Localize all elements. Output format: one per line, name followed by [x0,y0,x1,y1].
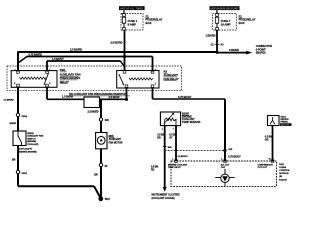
svg-text:1 BK/RD: 1 BK/RD [205,34,215,38]
connector X22 on left rail [16,113,28,118]
wire stub header to fuse left [123,10,125,14]
label F1 fuse/relay box [146,14,163,25]
wire bus line3 [47,60,121,62]
terminal squares on klima box [175,160,274,163]
dashed internal link [165,149,225,151]
sensor B10/8 resistor symbol [165,118,176,125]
svg-text:BN: BN [12,159,16,162]
label pressure switch [280,117,292,127]
arrow to instrument cluster [163,187,167,192]
wire resistor to relay K9 [100,98,127,100]
svg-text:16 AMP: 16 AMP [221,23,231,27]
svg-text:AUXILIARY FAN: AUXILIARY FAN [27,135,43,138]
sensor B10/8 arrow [164,113,175,124]
svg-text:6 BK/RD: 6 BK/RD [229,48,239,52]
wire label 0.5 BN/BK left [157,133,164,139]
relay K9 switch blade [119,74,124,85]
resistor R11 box [84,97,100,108]
svg-text:BOX: BOX [239,21,245,25]
svg-text:W10: W10 [105,198,111,201]
node junction dashed/klima [223,149,226,152]
svg-text:7: 7 [173,129,174,131]
fuse box F1 (right) dashed [213,14,237,31]
fuse box F1 (left) dashed [121,14,143,31]
wire relay K9/1 pin 8 drop [17,87,19,131]
svg-text:1.5 BK/VT: 1.5 BK/VT [52,57,64,61]
label sensor B10/8 [182,112,200,124]
svg-text:SWITCH: SWITCH [281,124,290,126]
klima internal lead to clutch [224,169,226,174]
svg-text:0.75 BK/GY: 0.75 BK/GY [178,95,192,99]
svg-text:0.5 BK/GY: 0.5 BK/GY [178,156,189,158]
wire line2 corner down to relay K9 [152,57,154,72]
clutch circle symbol [215,174,234,186]
label F1 fuse/relay box right [239,14,256,25]
wire fuse7 drop [216,30,218,52]
wire label 0.5 BN/GN [265,135,272,141]
label motor M6/1 [109,135,123,145]
svg-text:PRESS: PRESS [281,122,289,124]
svg-text:1: 1 [172,158,173,160]
wire line3 corner down [121,61,125,67]
connector X5 [99,163,108,168]
label a/c cut out [221,163,230,169]
label instrument cluster [152,194,180,200]
temp switch blade [18,131,22,146]
label temp switch S25/11 [19,133,44,154]
wire arrow to connector [217,48,252,55]
pressure switch symbol [270,117,275,124]
svg-text:X30/4: X30/4 [22,115,28,118]
ground node W10 [98,196,110,201]
wire resistor down to motor [100,99,102,132]
svg-text:TEMP INPUT: TEMP INPUT [168,167,181,169]
svg-text:HOT AT ALL TIMES: HOT AT ALL TIMES [120,6,143,10]
svg-text:8 AMP: 8 AMP [128,23,136,27]
fuse 7 value label [221,19,231,26]
svg-text:(ENGINE: (ENGINE [27,141,36,143]
connector tick C2/A3 [211,44,224,47]
svg-text:2.5 BK/W: 2.5 BK/W [109,95,120,99]
wire klima vertical [224,99,226,161]
wire ground diagonal [94,186,101,198]
svg-text:C2: C2 [211,44,215,47]
svg-text:OUT: OUT [221,167,226,169]
wire stub header to fuse right [216,10,218,14]
svg-text:8: 8 [14,83,15,85]
svg-text:COOLANT): COOLANT) [27,143,38,146]
svg-text:S25/11: S25/11 [27,133,34,135]
relay K9 pin numbers [121,69,156,85]
svg-text:X5: X5 [105,165,109,168]
sensor pin numbers [162,129,174,131]
node junction resistor/K9 [125,98,128,101]
svg-text:1: 1 [121,69,122,71]
svg-text:(BEHIND ENGINE): (BEHIND ENGINE) [19,151,37,153]
temp switch S25/11 box [13,131,26,146]
svg-text:A3: A3 [220,44,224,47]
svg-text:BN: BN [94,173,98,176]
label relay K9/1 [60,68,81,84]
svg-text:2.5 BK/RD: 2.5 BK/RD [110,41,122,45]
wire relay K9/1 pin rail up [46,61,48,72]
label N1/3 klima module [279,164,290,182]
svg-text:BN/RD: BN/RD [10,123,17,125]
svg-text:TEMP SENSOR: TEMP SENSOR [182,120,200,124]
relay K9/1 pin numbers [14,69,50,85]
svg-text:0.75 BK/GY: 0.75 BK/GY [228,156,241,159]
wire ground run bottom [18,185,94,187]
svg-text:(COOLANT GAUGE): (COOLANT GAUGE) [152,197,175,200]
relay K9/1 coil [20,77,47,79]
relay K9 terminals [123,71,154,88]
svg-text:SWITCH: SWITCH [27,138,36,140]
fuse F7 element [215,16,218,27]
svg-text:COMPRESSOR: COMPRESSOR [258,164,274,166]
svg-text:5: 5 [49,83,50,85]
fuse F1 element [122,16,125,27]
wire sensor right drop [175,126,177,161]
svg-text:10: 10 [269,158,271,160]
label connector destination [256,44,272,55]
wire label 0.5 BK/GY right [169,133,176,139]
svg-text:1: 1 [49,69,50,71]
svg-text:S65: S65 [168,147,173,149]
wire motor drop [100,149,102,199]
svg-text:X26: X26 [105,119,110,122]
svg-text:E-BOX): E-BOX) [279,179,287,181]
svg-text:1: 1 [162,129,163,131]
svg-text:RD: RD [157,137,161,140]
wire temp switch drop [17,146,19,187]
relay K9 inner box [117,71,159,89]
wire label 0.5 BN/BK lower [151,165,158,171]
fuse F7 terminal top [216,14,219,17]
header HOT IN RUN OR START [210,6,240,10]
wire relay K9 pin 5 drop right [152,88,154,99]
terminal pin numbers [172,158,270,160]
svg-text:0.5 BN/RD: 0.5 BN/RD [4,99,15,101]
svg-text:ENGINE COOLANT: ENGINE COOLANT [168,163,188,166]
svg-text:MODULE: MODULE [279,173,289,175]
svg-text:N1/3: N1/3 [279,164,284,166]
fuse 1 value label [128,19,138,26]
node junction fuse1/line2 [123,55,126,58]
label eng coolant temp input [168,163,188,169]
connector X26 [99,118,109,122]
wire to resistor [47,98,84,100]
fuse F7 terminal bottom [216,28,219,31]
svg-text:2.5 BK/RD: 2.5 BK/RD [88,110,99,113]
header HOT AT ALL TIMES [119,6,145,10]
wire fuse1 drop [124,30,126,71]
fuse F1 terminal bottom [123,28,126,31]
klima control unit N1/3 dashed box [171,161,277,186]
relay K9/1 switch blade [44,73,49,85]
svg-text:S15: S15 [228,149,233,151]
fuse F1 terminal top [123,14,126,17]
svg-text:X26/1: X26/1 [21,173,27,175]
svg-text:GY: GY [169,137,173,140]
svg-text:(IN: (IN [279,176,282,178]
node junction fuse7/bus [215,51,218,54]
svg-text:2.5 BK/RD: 2.5 BK/RD [70,47,82,51]
svg-text:GN: GN [265,139,269,142]
svg-text:KLIMA: KLIMA [279,166,286,169]
wire relay K9/1 pin 5 drop [46,87,48,100]
wire line2 diagonal branch [18,57,27,64]
svg-text:A/C CUT: A/C CUT [221,163,230,166]
pressure switch S31/1 box [268,116,280,126]
svg-text:2: 2 [155,69,156,71]
wire bus line2 [27,56,153,58]
svg-text:RD: RD [151,169,155,172]
splice tick S65 [163,147,172,149]
svg-text:CUT OUT: CUT OUT [258,167,268,169]
wire relay K9 pin 3 drop [126,88,128,99]
relay K9/1 inner box [11,71,57,88]
relay K9 coil [129,78,153,80]
motor M6/1 circle [97,137,105,145]
svg-text:CONTROL: CONTROL [279,170,290,172]
svg-text:RELAY: RELAY [60,80,69,84]
svg-text:0.75 BK/RD: 0.75 BK/RD [29,52,43,56]
wire sensor left drop [164,126,166,188]
svg-text:(100°C/212°F): (100°C/212°F) [19,149,33,151]
svg-text:2: 2 [221,158,222,160]
connector X7 [16,170,27,175]
svg-text:FAN MOTOR: FAN MOTOR [109,141,123,144]
svg-text:HOT IN RUN OR START: HOT IN RUN OR START [211,6,239,10]
relay K9/1 terminals [17,71,49,87]
label compressor cut out [258,164,274,169]
label relay K9 [164,70,179,81]
svg-text:2: 2 [14,69,15,71]
label resistor R11 [69,92,130,96]
svg-text:(BK/RD): (BK/RD) [256,51,266,55]
svg-text:5: 5 [155,84,156,86]
wire bus line1 battery [17,51,217,53]
svg-text:FAN RELAY: FAN RELAY [164,77,179,81]
wire pressure switch drop [272,126,274,162]
wire left rail top [17,52,19,72]
wire K9 to klima horizontal [153,98,226,100]
relay group dashed box [7,66,182,91]
motor M6/1 box [96,133,107,149]
sensor B10/8 box [160,112,180,126]
svg-text:BOX: BOX [146,21,152,25]
